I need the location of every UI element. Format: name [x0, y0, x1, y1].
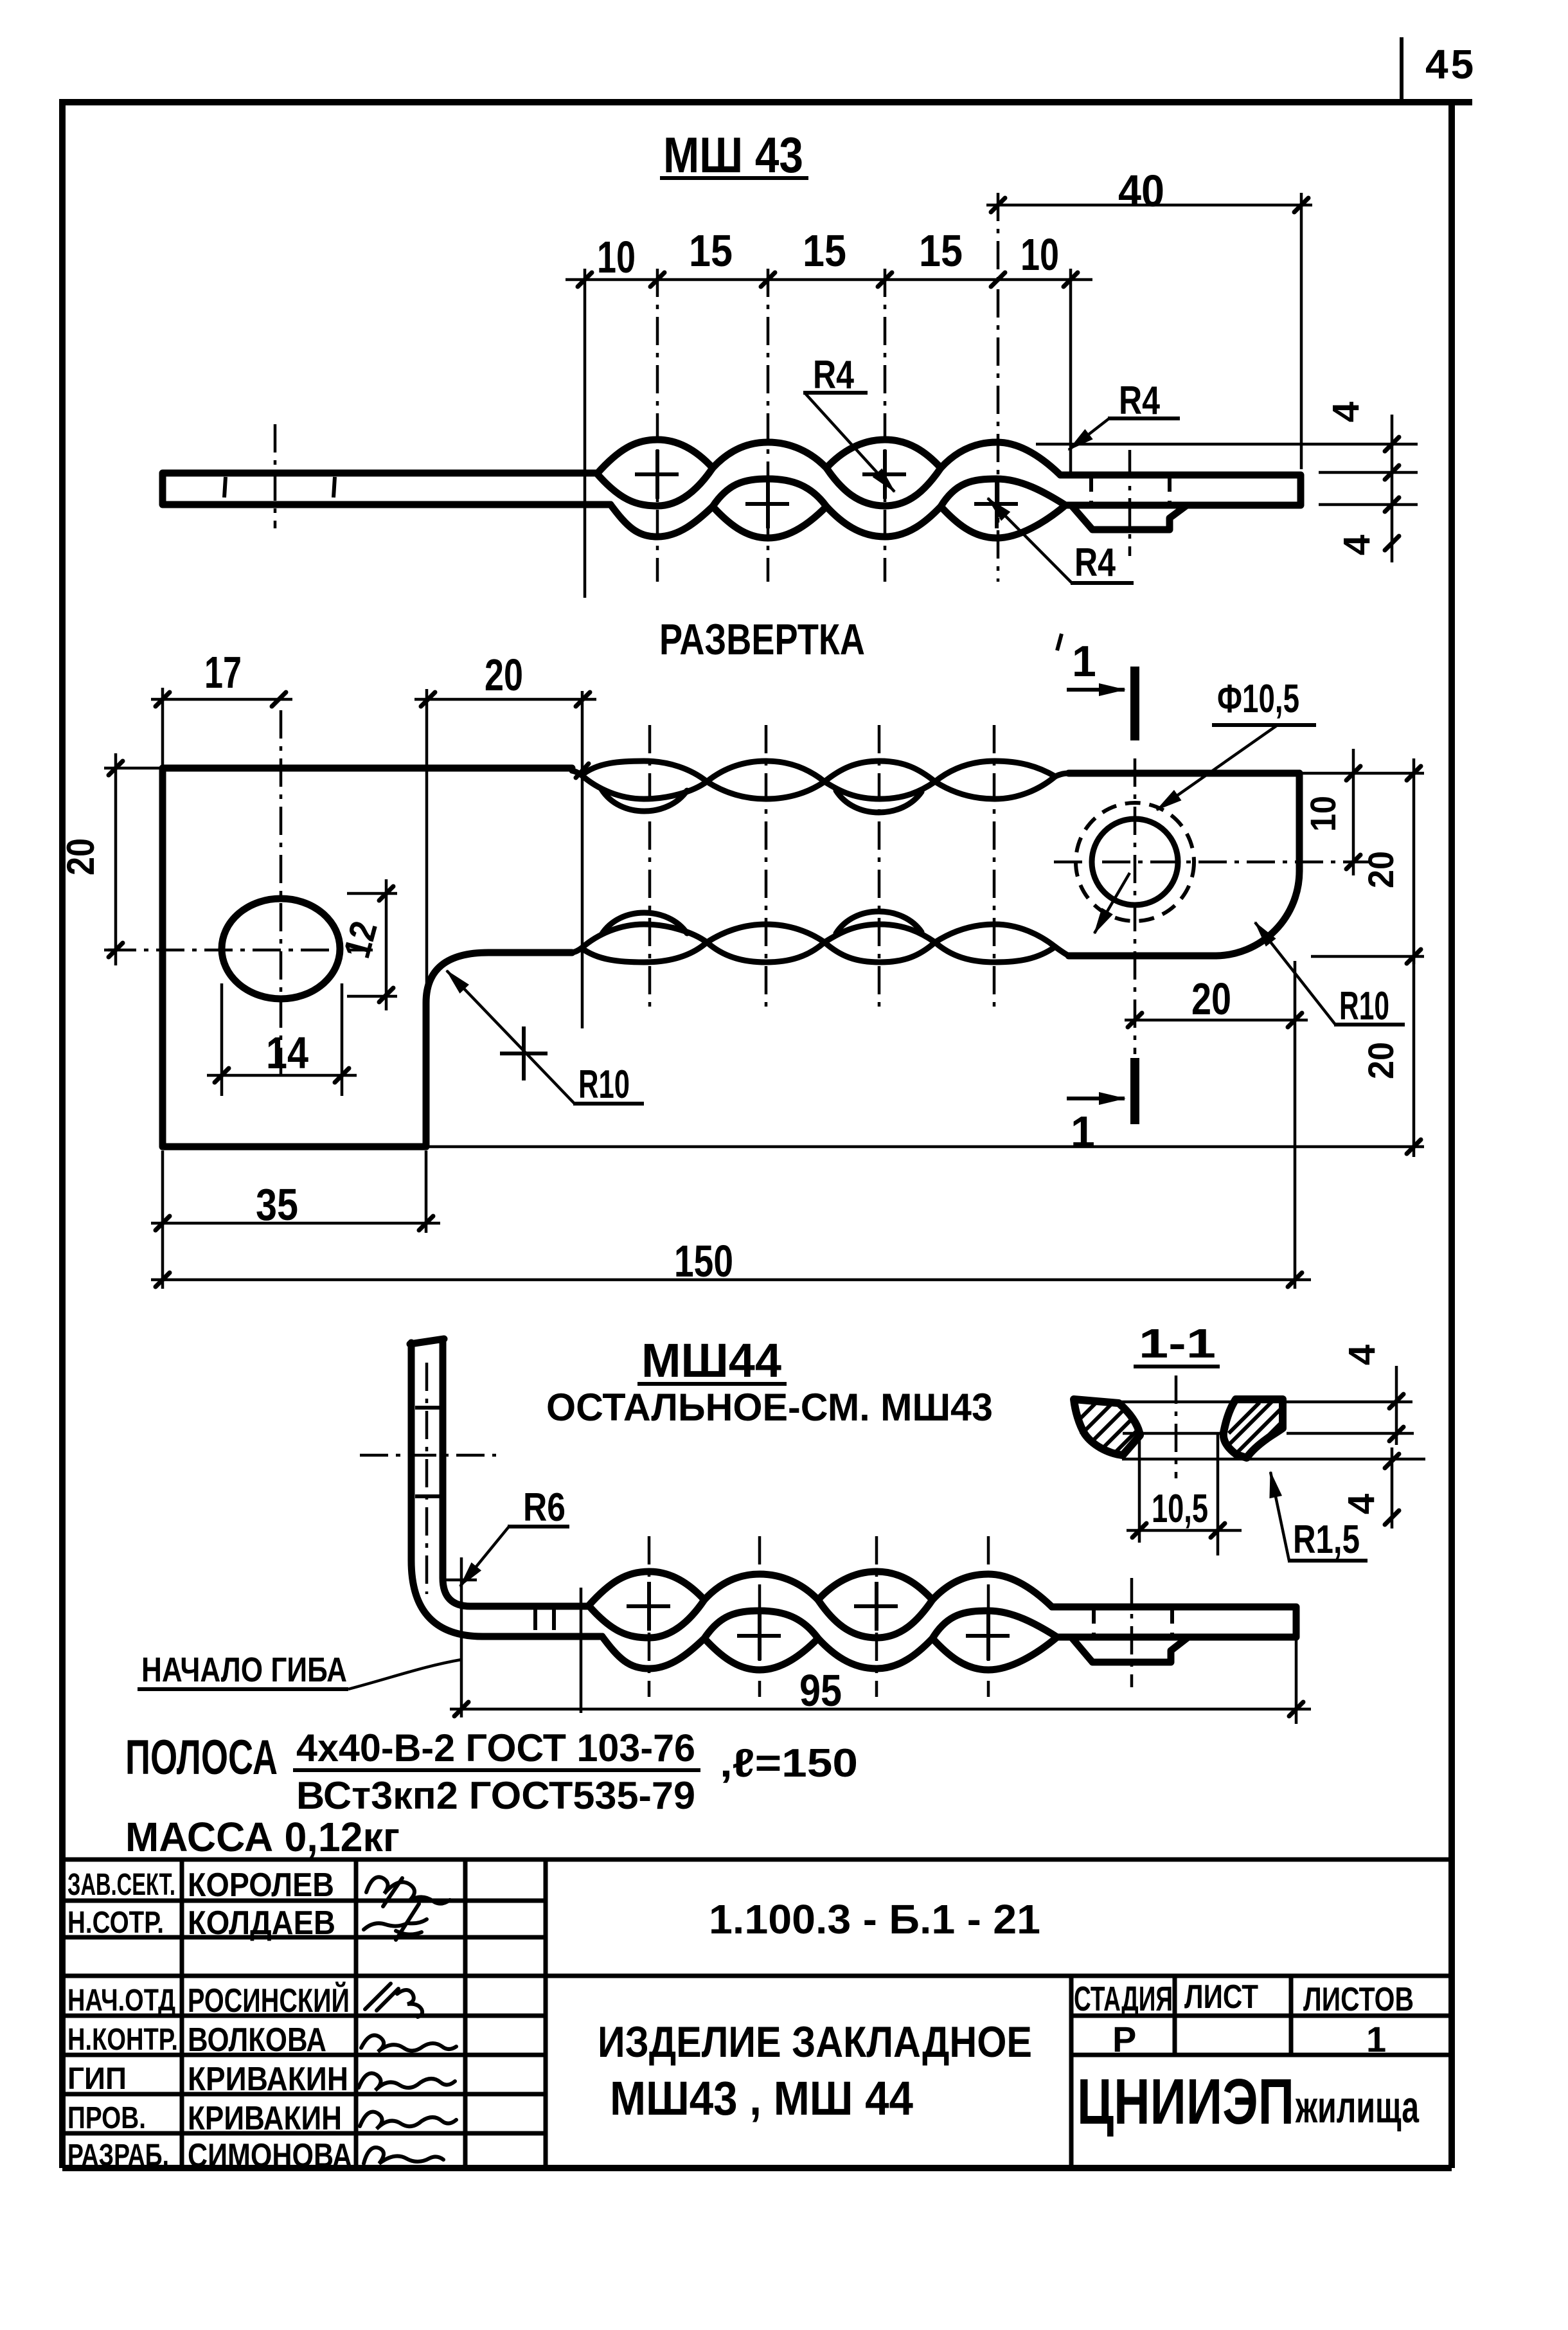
top row braid: bottom arcs [582, 775, 1055, 799]
svg-text:РАЗВЕРТКА: РАЗВЕРТКА [659, 615, 865, 664]
svg-text:R4: R4 [1119, 379, 1160, 423]
MSh43 braid lens2 middle arc [713, 479, 826, 506]
svg-text:СТАДИЯ: СТАДИЯ [1074, 1980, 1173, 2018]
thin line top hump level [1036, 443, 1418, 446]
bend start extension line [460, 1557, 463, 1717]
dim 150 [151, 1278, 1311, 1282]
svg-text:1.100.3 - Б.1 - 21: 1.100.3 - Б.1 - 21 [709, 1896, 1040, 1942]
MSh44 braid top outline [589, 1572, 1052, 1607]
sig row2 [364, 1904, 427, 1940]
dim 10,5 [1139, 1435, 1218, 1555]
svg-text:КОЛДАЕВ: КОЛДАЕВ [188, 1904, 335, 1942]
svg-text:17: 17 [204, 647, 242, 697]
svg-text:Ф10,5: Ф10,5 [1217, 677, 1299, 721]
svg-text:ВОЛКОВА: ВОЛКОВА [188, 2021, 326, 2059]
MSh44 braid lens2 middle arc [704, 1611, 818, 1638]
MSh44 leg break marks [415, 1408, 440, 1496]
svg-text:R4: R4 [813, 353, 854, 397]
dim 20 right upper [1412, 758, 1416, 964]
svg-text:20: 20 [1191, 974, 1231, 1024]
sig row1 [366, 1877, 450, 1906]
razvertka lens centerlines [650, 725, 994, 1010]
svg-text:ПРОВ.: ПРОВ. [67, 2101, 146, 2135]
MSh43 side view: strip left straight part [163, 473, 610, 505]
dim chain 10-15-15-15-10 line [566, 278, 1092, 282]
MSh44 braid lens3 middle arc [818, 1600, 932, 1638]
svg-text:R6: R6 [523, 1485, 566, 1530]
right hole solid circle [1092, 819, 1178, 905]
MSh43 strip right straight part [1060, 475, 1301, 505]
section 1-1 right piece [1224, 1399, 1283, 1458]
dim 20 top [414, 698, 596, 701]
svg-text:МАССА 0,12кг: МАССА 0,12кг [125, 1814, 400, 1860]
drawing frame border [62, 102, 1472, 2168]
svg-text:150: 150 [674, 1236, 733, 1286]
dim 4 vertical line right [1391, 415, 1394, 562]
MSh43 braid lens3 middle arc [826, 468, 941, 506]
svg-text:10: 10 [597, 232, 636, 282]
dim 14 [222, 983, 342, 1096]
MSh44 lens centerlines [649, 1536, 988, 1697]
top edge extension right [1299, 772, 1424, 775]
svg-text:,ℓ=150: ,ℓ=150 [720, 1741, 858, 1786]
svg-text:КОРОЛЕВ: КОРОЛЕВ [188, 1867, 334, 1904]
right piece hatching [1226, 1400, 1283, 1454]
MSh43 hole centerline [1128, 450, 1132, 556]
MSh44 leg centerline [360, 1363, 496, 1594]
dim 95 [450, 1708, 1311, 1711]
svg-text:95: 95 [799, 1665, 842, 1716]
long extension through rows at 906 [581, 691, 584, 1028]
svg-text:35: 35 [256, 1179, 298, 1230]
bottom row detached smiles [601, 911, 922, 935]
fillet center cross [500, 1026, 548, 1080]
right hole dashed circle [1076, 803, 1194, 921]
dim chain extension lines [585, 269, 1071, 598]
svg-text:ОСТАЛЬНОЕ-СМ. МШ43: ОСТАЛЬНОЕ-СМ. МШ43 [546, 1386, 993, 1429]
MSh44 strip break marks [535, 1608, 554, 1630]
MSh43 braid cross marks [635, 450, 1018, 528]
page number tick [1400, 37, 1403, 104]
svg-text:10: 10 [1020, 229, 1059, 280]
bottom edge extension line right [426, 1145, 1424, 1149]
mid edge extension right [1311, 955, 1424, 958]
MSh44 hidden hole edges [1094, 1608, 1172, 1636]
svg-text:20: 20 [59, 838, 102, 875]
dim 20 hole-to-edge [1125, 1019, 1308, 1022]
svg-text:15: 15 [919, 226, 963, 276]
svg-text:4: 4 [1336, 535, 1378, 555]
svg-text:R4: R4 [1074, 541, 1116, 585]
dim 10 right [1352, 749, 1355, 875]
svg-text:4: 4 [1341, 1494, 1382, 1514]
svg-text:СИМОНОВА: СИМОНОВА [188, 2137, 352, 2174]
svg-text:20: 20 [1360, 1042, 1401, 1079]
dim chain ticks [578, 273, 1078, 287]
svg-text:1: 1 [1072, 637, 1096, 686]
svg-text:МШ44: МШ44 [641, 1334, 781, 1387]
MSh43 braid bottom outline [610, 505, 1065, 538]
MSh44 strip right straight [1052, 1607, 1296, 1637]
plate outline left part [163, 768, 572, 1147]
dim 12 [347, 893, 397, 996]
dim 40 line [986, 204, 1312, 207]
section mark 1 bottom [1130, 1058, 1139, 1124]
svg-text:КРИВАКИН: КРИВАКИН [188, 2061, 348, 2098]
bottom row braid: top arcs [572, 924, 1055, 953]
right hole vertical centerline [1134, 758, 1137, 1054]
svg-text:15: 15 [689, 226, 733, 276]
svg-text:20: 20 [485, 650, 523, 700]
svg-text:10,5: 10,5 [1152, 1487, 1208, 1531]
MSh43 braid lens4 middle arc [941, 479, 1065, 506]
MSh43 braid top outline [597, 440, 1060, 475]
svg-text:4х40-В-2 ГОСТ 103-76: 4х40-В-2 ГОСТ 103-76 [296, 1726, 695, 1770]
top edge right straight [1069, 770, 1299, 777]
svg-text:Р: Р [1112, 2019, 1136, 2059]
top row detached smiles [601, 789, 922, 812]
dim 4 bottom right of section [1391, 1447, 1394, 1528]
sig row6 [359, 2074, 455, 2091]
section 1-1 left piece [1074, 1399, 1140, 1455]
interior extension at 664 [425, 689, 429, 993]
svg-text:ИЗДЕЛИЕ ЗАКЛАДНОЕ: ИЗДЕЛИЕ ЗАКЛАДНОЕ [598, 2018, 1032, 2066]
MSh43 hidden hole edges [1091, 476, 1170, 504]
MSh44 braid bottom outline [602, 1636, 1057, 1670]
MSh43 strip break marks [224, 477, 335, 497]
svg-text:МШ43 , МШ 44: МШ43 , МШ 44 [610, 2072, 913, 2125]
MSh43 strip left centerline [274, 424, 277, 528]
svg-text:4: 4 [1341, 1345, 1383, 1365]
dim 40 extension [1300, 193, 1303, 469]
MSh44 braid lens1 middle arc [589, 1600, 704, 1638]
svg-text:40: 40 [1118, 166, 1164, 216]
top row braid: top arcs [572, 761, 1069, 782]
svg-text:ЛИСТОВ: ЛИСТОВ [1303, 1981, 1414, 2018]
svg-text:1-1: 1-1 [1139, 1320, 1216, 1367]
right hole horizontal centerline [1054, 861, 1369, 864]
MSh43 washer bump [1071, 505, 1187, 530]
dim 17 [151, 698, 292, 701]
plate right end with R10 corner [1216, 773, 1299, 956]
dim 4 ticks [1385, 437, 1399, 550]
svg-text:14: 14 [266, 1028, 308, 1078]
svg-text:Н.КОНТР.: Н.КОНТР. [67, 2023, 178, 2057]
sig row5 [361, 2035, 456, 2052]
plate hole ellipse [222, 899, 340, 999]
svg-text:ПОЛОСА: ПОЛОСА [125, 1730, 278, 1785]
MSh44 vertical leg [410, 1339, 483, 1636]
svg-text:20: 20 [1360, 851, 1401, 888]
dim 4 top right of section [1395, 1366, 1398, 1445]
sig row7 [360, 2112, 456, 2129]
dim 40 ticks [991, 198, 1308, 212]
svg-text:45: 45 [1425, 41, 1476, 87]
svg-text:R10: R10 [1339, 984, 1389, 1028]
svg-text:R10: R10 [578, 1062, 630, 1107]
svg-text:КРИВАКИН: КРИВАКИН [188, 2100, 342, 2137]
svg-text:ЗАВ.СЕКТ.: ЗАВ.СЕКТ. [67, 1868, 175, 1902]
plate hole horizontal centerline [108, 949, 373, 952]
svg-text:R1,5: R1,5 [1293, 1518, 1360, 1562]
bottom row braid: bottom arcs [582, 942, 1069, 962]
section 1-1 centerline [1175, 1376, 1178, 1478]
MSh44 braid lens4 middle arc [932, 1611, 1057, 1638]
section 1-1 thin surface lines [1121, 1402, 1425, 1459]
svg-text:15: 15 [803, 226, 846, 276]
left piece hatching [1078, 1402, 1139, 1454]
MSh44 washer bump [1071, 1637, 1188, 1662]
svg-text:10: 10 [1303, 796, 1343, 832]
svg-text:1: 1 [1071, 1107, 1095, 1156]
svg-text:НАЧАЛО ГИБА: НАЧАЛО ГИБА [141, 1651, 347, 1689]
sig row4 [365, 1984, 422, 2017]
lens centerline extensions [657, 193, 998, 582]
plate hole vertical centerline [280, 710, 283, 1078]
MSh43 braid lens1 middle arc [597, 468, 713, 506]
MSh44 braid cross marks [627, 1582, 1010, 1660]
svg-text:ВСт3кп2 ГОСТ535-79: ВСт3кп2 ГОСТ535-79 [296, 1774, 695, 1817]
title block lines [62, 1860, 1452, 2133]
MSh44 hole centerline [1130, 1578, 1134, 1687]
svg-text:4: 4 [1325, 402, 1367, 422]
svg-text:1: 1 [1366, 2019, 1386, 2059]
svg-text:Н.СОТР.: Н.СОТР. [67, 1906, 164, 1940]
svg-text:ЛИСТ: ЛИСТ [1184, 1978, 1258, 2016]
mid edge right straight [1069, 953, 1216, 960]
section mark 1 top [1130, 667, 1139, 740]
svg-text:жилища: жилища [1295, 2082, 1419, 2132]
title MSh 43 underline [660, 176, 808, 180]
svg-text:ЦНИИЭП: ЦНИИЭП [1077, 2066, 1294, 2138]
sig row8 [364, 2147, 443, 2164]
MSh44 horizontal strip left [470, 1606, 602, 1636]
svg-text:НАЧ.ОТД: НАЧ.ОТД [67, 1984, 175, 2018]
dim 20 left [104, 768, 163, 950]
svg-text:ГИП: ГИП [67, 2062, 127, 2096]
svg-text:МШ 43: МШ 43 [663, 127, 803, 183]
dim 20 right lower [1412, 956, 1416, 1157]
thin extensions strip edges right [1319, 472, 1418, 505]
dim 35 [163, 1151, 426, 1233]
svg-text:РОСИНСКИЙ: РОСИНСКИЙ [188, 1982, 350, 2020]
svg-text:РАЗРАБ.: РАЗРАБ. [67, 2138, 169, 2173]
